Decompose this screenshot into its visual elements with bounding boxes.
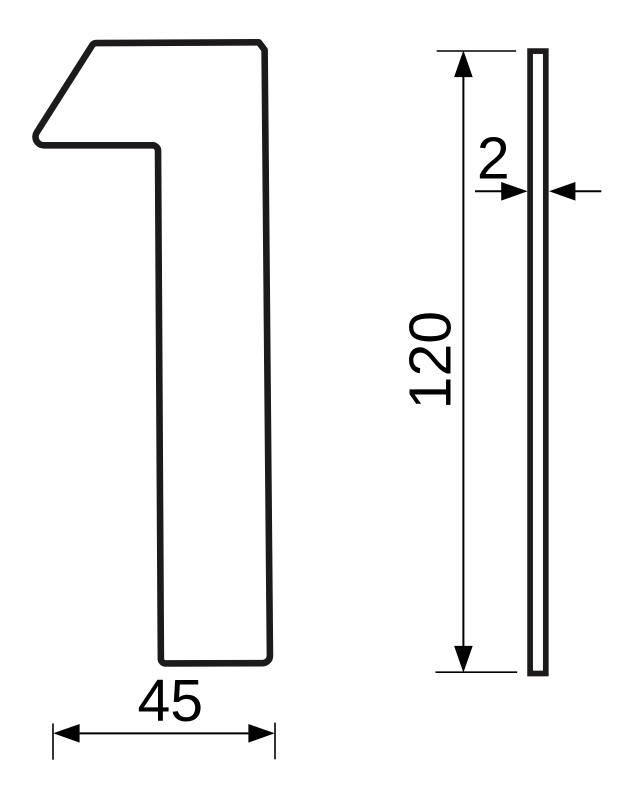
45 dimension: right extension tick (274, 723, 276, 760)
45 dimension: right arrow (248, 724, 274, 743)
120 dimension: bottom arrow (454, 646, 473, 673)
120 dimension: top extension tick (437, 50, 516, 52)
svg-text:2: 2 (477, 126, 510, 192)
svg-text:120: 120 (397, 311, 463, 409)
120 dimension: vertical line (462, 62, 464, 660)
45 dimension: horizontal line (65, 732, 263, 734)
2 dimension: left arrow (501, 182, 527, 201)
side view plate (thin rectangle) (530, 51, 546, 673)
2 dimension: right line (575, 190, 601, 192)
45 dimension: left extension tick (52, 724, 54, 760)
svg-text:45: 45 (137, 668, 203, 734)
digit 1 outline (front view) (35, 42, 269, 663)
120 dimension: bottom extension tick (436, 671, 518, 673)
2 dimension: left line (475, 190, 502, 192)
120 dimension: top arrow (454, 50, 473, 77)
45 dimension: left arrow (53, 724, 79, 743)
2 dimension: right arrow (549, 182, 575, 201)
